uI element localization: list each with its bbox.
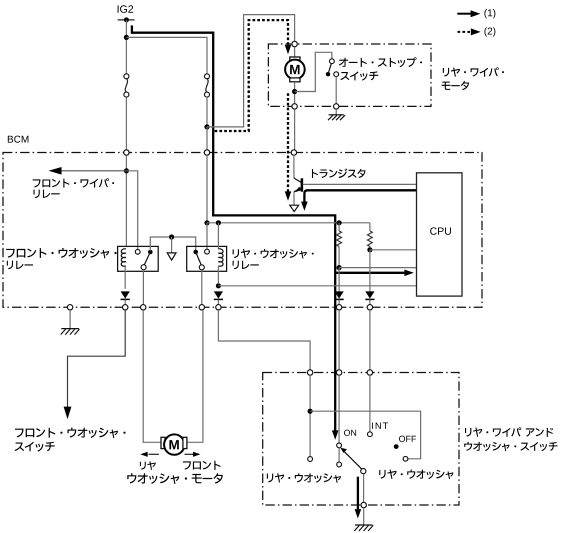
wire rear washer relay pivot down bbox=[201, 270, 203, 305]
front washer relay contact node bbox=[148, 250, 153, 255]
junction node resistor R1 top bbox=[337, 220, 342, 225]
motor M2 washer motor bbox=[161, 437, 165, 448]
rear washer relay contact node bbox=[193, 250, 198, 255]
auto-stop switch bbox=[330, 59, 335, 64]
thick current path (1) from CPU through transistor base bbox=[304, 190, 416, 202]
front washer relay pivot circle bbox=[141, 265, 146, 270]
label front washer relay bbox=[6, 248, 117, 258]
wire R2 to CPU bbox=[370, 249, 417, 251]
diode rear washer relay bbox=[214, 291, 223, 298]
resistor R2 bbox=[369, 223, 371, 231]
connector circle BCM IG2-2 bbox=[204, 150, 209, 155]
connector circle BCM washer motor front bbox=[199, 305, 204, 310]
INT contact circle bbox=[368, 432, 373, 437]
diode front washer relay bbox=[121, 291, 130, 298]
rear washer contact circle left bbox=[308, 457, 313, 462]
label front wiper relay bbox=[33, 178, 114, 187]
wire feed down to washer contact bbox=[309, 375, 311, 456]
wire auto-stop switch to ground connector bbox=[335, 77, 337, 104]
wire fuse 2 branch into BCM bbox=[206, 127, 208, 150]
label ON bbox=[344, 430, 356, 436]
legend dashed arrow (2) bbox=[458, 31, 471, 33]
connector circle auto-stop ground on enclosure bottom bbox=[334, 104, 339, 109]
label OFF bbox=[399, 436, 416, 442]
wire washer motor right to BCM bbox=[188, 310, 203, 442]
dashed current path (2) from fuse to rear wiper motor bbox=[215, 20, 288, 131]
wire motor to auto-stop switch bbox=[295, 52, 332, 91]
label transistor bbox=[312, 168, 366, 178]
wire rear relay coil to CPU bbox=[218, 285, 416, 287]
junction node bus coil tap bbox=[216, 220, 221, 225]
front washer relay contact circle bbox=[135, 249, 140, 254]
label rear washer relay bbox=[233, 249, 314, 259]
thick current path (1) branch arrow into CPU bbox=[335, 272, 404, 274]
wire to front washer switch bbox=[68, 310, 126, 407]
junction node below IG2 bbox=[124, 35, 129, 40]
ground below rear switch bbox=[355, 524, 373, 526]
legend solid arrow (1) bbox=[457, 13, 471, 15]
motor M1 rear wiper motor bbox=[290, 57, 300, 61]
connector circle BCM washer motor rear bbox=[141, 305, 146, 310]
label auto-stop switch bbox=[339, 57, 422, 67]
rear washer relay arm bbox=[196, 252, 202, 265]
open continuation arrow below transistor bbox=[290, 205, 299, 211]
label INT bbox=[372, 423, 388, 429]
arrow to front wiper relay bbox=[61, 170, 126, 172]
connector circle BCM front washer out bbox=[123, 305, 128, 310]
junction node rear relay coil out bbox=[216, 283, 221, 288]
connector circle BCM rear washer sw bbox=[216, 305, 221, 310]
ground below BCM bbox=[69, 310, 71, 329]
wire fuse 2 down bbox=[206, 97, 208, 127]
wire front washer relay pivot down bbox=[142, 270, 144, 305]
wire bus to resistors bbox=[207, 222, 370, 224]
label rear washer left bbox=[267, 473, 341, 483]
wire INT down to contact bbox=[369, 375, 371, 432]
wire BCM to rear switch feed bbox=[218, 310, 310, 370]
wire into motor bbox=[294, 47, 296, 57]
label front washer switch bbox=[15, 428, 126, 438]
connector circle rear switch INT bbox=[367, 370, 372, 375]
wire transistor emitter down bbox=[293, 192, 295, 205]
OFF position node bbox=[394, 444, 399, 449]
label BCM bbox=[8, 136, 29, 143]
connector circle rear switch ground bbox=[361, 502, 366, 507]
connector circle rear switch ON bbox=[336, 370, 341, 375]
wire R2 node down to diode bbox=[369, 250, 371, 292]
wire feed to OFF contact bbox=[310, 411, 421, 459]
resistor R1 bbox=[338, 223, 340, 231]
transistor base wire to CPU bbox=[303, 183, 417, 185]
junction node R2 bottom bbox=[367, 247, 372, 252]
open continuation arrow at relay link bbox=[167, 253, 176, 260]
wire R1 node down to diode bbox=[338, 268, 340, 292]
wire diode to connector bbox=[124, 300, 126, 305]
fuse 2 bbox=[205, 74, 210, 79]
ground below rear wiper motor enclosure bbox=[335, 109, 337, 115]
rear washer contact circle right bbox=[337, 462, 342, 467]
wire motor to bottom connector bbox=[294, 82, 296, 104]
label rear washer right bbox=[379, 470, 453, 480]
front washer relay arm bbox=[144, 252, 150, 265]
op-amp CPU box bbox=[417, 173, 463, 296]
wire to front washer relay contact bbox=[126, 171, 137, 250]
connector circle motor supply on enclosure top bbox=[292, 41, 297, 46]
junction node bus left bbox=[204, 220, 209, 225]
rear washer relay box bbox=[187, 246, 227, 271]
rear washer relay pivot circle bbox=[199, 265, 204, 270]
connector circle BCM motor input bbox=[291, 150, 296, 155]
junction node rear switch feed bbox=[308, 409, 313, 414]
wire ON contact pair bbox=[338, 448, 340, 462]
transistor emitter bbox=[294, 188, 301, 192]
connector circle BCM ground bbox=[67, 305, 72, 310]
washer motor front direction arrow bbox=[185, 453, 195, 455]
rear switch arm bbox=[344, 451, 362, 469]
wire between relay contacts bbox=[150, 237, 195, 251]
junction node motor negative bbox=[292, 89, 297, 94]
connector circle motor negative on enclosure bottom bbox=[292, 104, 297, 109]
wire pivot to enclosure bottom bbox=[363, 474, 365, 503]
fuse 1 bbox=[124, 74, 129, 79]
rear washer relay contact circle bbox=[205, 249, 210, 254]
wire ON down to contact bbox=[338, 375, 340, 443]
wire BCM IG2-2 down to wire bus bbox=[206, 155, 208, 223]
rear wiper motor enclosure box bbox=[268, 44, 431, 106]
wire fuse 2 to rear wiper motor bbox=[207, 15, 295, 127]
wire IG2 branch to fuse 2 bbox=[126, 37, 207, 73]
wire front wiper relay feed bbox=[125, 155, 127, 246]
junction node front wiper relay tap bbox=[124, 168, 129, 173]
rear washer relay coil bbox=[217, 223, 219, 249]
thick current path (1) from IG2 through BCM to rear switch ON bbox=[132, 25, 335, 430]
wire bus to rear relay contact bbox=[206, 223, 208, 249]
label rear wiper motor bbox=[443, 67, 504, 76]
rear switch pivot circle bbox=[361, 469, 366, 474]
wire BCM to washer motor left bbox=[143, 310, 161, 442]
connector circle BCM rear sw ON bbox=[336, 305, 341, 310]
rear wiper and washer switch enclosure box bbox=[263, 373, 459, 506]
connector circle rear switch feed bbox=[307, 370, 312, 375]
junction node R1 bottom bbox=[337, 265, 342, 270]
diode BCM washer output 1 bbox=[335, 291, 344, 298]
label washer motor directions bbox=[140, 461, 156, 470]
junction node at fuse 2 output bbox=[204, 124, 209, 129]
label rear wiper and washer switch bbox=[465, 427, 553, 436]
wire R1 to CPU bbox=[339, 267, 416, 269]
OFF contact circle bbox=[403, 456, 408, 461]
arrow to front washer switch bbox=[64, 407, 72, 420]
wire relay link stub down bbox=[171, 237, 173, 253]
thick current path (1) arrow to ground below rear switch bbox=[357, 477, 359, 510]
ON contact circle bbox=[337, 443, 342, 448]
diode BCM wiper output 2 bbox=[365, 291, 374, 298]
wire BCM to rear switch INT bbox=[369, 310, 371, 370]
connector circle BCM rear sw INT bbox=[367, 305, 372, 310]
front washer relay coil bbox=[121, 249, 126, 266]
wire fuse 1 to BCM bbox=[125, 97, 127, 150]
junction node relay link bbox=[169, 234, 174, 239]
front washer relay box bbox=[118, 246, 159, 271]
wire motor negative to BCM bbox=[294, 109, 296, 150]
wire IG2 down to fuse 1 bbox=[125, 20, 127, 74]
wire motor line into transistor collector bbox=[293, 155, 295, 178]
wire BCM to rear switch ON bbox=[338, 310, 340, 370]
BCM enclosure box bbox=[3, 153, 482, 308]
transistor base bar bbox=[301, 178, 304, 191]
washer motor rear direction arrow bbox=[149, 453, 159, 455]
connector circle BCM IG2-1 bbox=[124, 150, 129, 155]
wire to rear switch ground bbox=[363, 508, 365, 525]
IG2 terminal bbox=[118, 19, 135, 21]
dashed current path (2) from motor to transistor bbox=[287, 93, 289, 191]
